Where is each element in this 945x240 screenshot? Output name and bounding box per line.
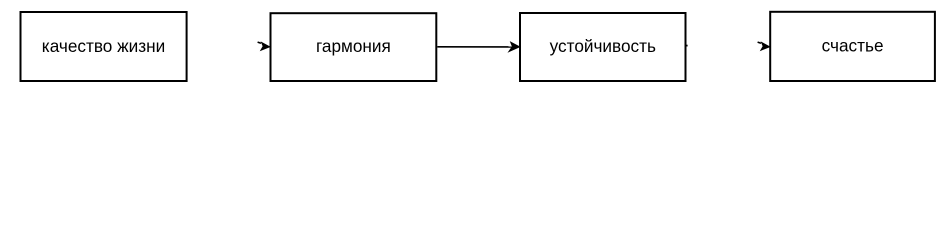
box "качество жизни" <box>21 12 187 81</box>
arrowhead 3 (into счастье) <box>761 43 770 51</box>
box "устойчивость" <box>520 13 686 81</box>
wire stub into arrow 3 <box>758 42 761 43</box>
wire stub leaving устойчивость <box>686 45 688 47</box>
svg-text:гармония: гармония <box>316 36 391 56</box>
svg-text:качество жизни: качество жизни <box>42 36 165 56</box>
arrowhead 1 (into гармония) <box>261 43 270 51</box>
box "гармония" <box>271 13 437 81</box>
wire stub into arrow 1 <box>258 42 261 43</box>
wire from гармония to устойчивость <box>437 46 513 48</box>
svg-text:счастье: счастье <box>822 36 884 56</box>
svg-text:устойчивость: устойчивость <box>550 36 656 56</box>
arrowhead 2 (into устойчивость) <box>509 42 520 51</box>
box "счастье" <box>770 12 935 81</box>
